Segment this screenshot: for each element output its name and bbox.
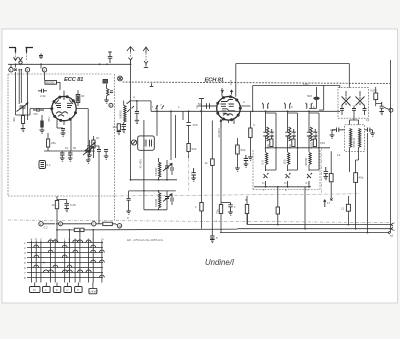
- tube ECH 81 envelope: [217, 97, 241, 121]
- switch contact arcs row6: [34, 265, 72, 267]
- IF bus row: [254, 187, 311, 229]
- antenna 1 arrow: [127, 47, 134, 52]
- trimmer bottom-left cluster: [83, 146, 94, 155]
- ground under node cap: [135, 120, 140, 123]
- wire row y151: [44, 126, 95, 151]
- resistor 75k below tube: [219, 205, 222, 214]
- wire H3 second top: [253, 86, 340, 112]
- svg-text:40k: 40k: [359, 176, 364, 180]
- switch contact arcs row5: [91, 260, 105, 262]
- dash-dot chassis line bottom: [8, 220, 390, 223]
- cap to ground at bus left: [210, 236, 214, 240]
- capacitor 400: [186, 123, 190, 126]
- wire H5 main B+ row: [151, 110, 340, 112]
- svg-text:U: U: [66, 288, 68, 292]
- resistor right of tube: [249, 128, 252, 138]
- switch contact arcs row4: [34, 255, 67, 257]
- verticals from H5: [171, 111, 183, 160]
- antenna lead bottom cap: [127, 198, 131, 200]
- resistor right of trimmer: [92, 140, 95, 148]
- resistor right col a: [329, 174, 333, 182]
- svg-text:4000: 4000: [314, 131, 318, 138]
- resistor below tube ECH: [211, 159, 215, 166]
- capacitor 2,2k: [38, 89, 47, 93]
- cap right top to ground: [380, 102, 384, 112]
- cap right of col3: [324, 167, 328, 177]
- tube ECC 81 envelope: [52, 96, 76, 120]
- antenna 1 Y contact: [129, 58, 133, 64]
- svg-text:40-80V: 40-80V: [217, 128, 221, 138]
- svg-text:2k: 2k: [96, 136, 100, 140]
- bottom bus a: [238, 228, 392, 230]
- svg-text:300: 300: [283, 159, 287, 164]
- junction dots on H1: [15, 63, 17, 65]
- capacitor on node: [135, 112, 139, 114]
- terminal 8 mid: [109, 103, 113, 107]
- connector leads: [35, 283, 93, 289]
- svg-text:ECH 81: ECH 81: [205, 78, 224, 84]
- resistor 1k vertical: [55, 201, 58, 209]
- antenna terminal bracket 1: [9, 48, 16, 53]
- capacitor below tube: [61, 129, 65, 131]
- small contact labels F: [155, 106, 164, 109]
- cathode resistor below tube: [57, 127, 63, 129]
- coil pack dotted enclosure: [253, 150, 320, 190]
- caps inside tank box: [144, 140, 152, 147]
- resistor 40k mid: [117, 124, 120, 131]
- IF column upper coils: [267, 127, 269, 141]
- dash-dot vertical links: [189, 148, 322, 194]
- svg-text:0,2: 0,2: [284, 181, 289, 185]
- junction dots on buses: [355, 228, 357, 230]
- matrix junction dots: [35, 252, 37, 254]
- connector box K: [53, 287, 61, 293]
- trimmer cluster mid-left: [85, 142, 96, 151]
- svg-text:ECC 81: ECC 81: [64, 77, 83, 83]
- tube ECH81 pin circles: [222, 97, 224, 99]
- switch matrix vertical columns: [31, 241, 102, 283]
- ground pair: [60, 158, 73, 161]
- screened lead terminal: [118, 76, 123, 81]
- tube ECH81 pin leads: [197, 64, 251, 128]
- svg-text:P: P: [77, 288, 79, 292]
- X core trimmer 2: [356, 97, 365, 106]
- svg-text:17: 17: [327, 201, 331, 205]
- capacitor right of coil: [110, 91, 113, 93]
- resistor 90 horizontal on bus: [74, 228, 84, 231]
- vertical x367: [367, 133, 369, 233]
- ground right of tube: [248, 157, 253, 160]
- capacitor 500: [313, 97, 319, 100]
- IF column 3: [308, 111, 310, 187]
- cap left of IFT: [337, 128, 339, 133]
- band filter trimmer upper: [163, 163, 172, 171]
- resistor 40k left: [21, 116, 24, 124]
- ground under trimmer: [86, 160, 91, 163]
- switch contact arcs row1: [48, 240, 91, 243]
- capacitor above H1: [108, 52, 113, 63]
- band filter cap upper: [171, 167, 173, 171]
- switch matrix horizontal rows: [27, 243, 103, 278]
- svg-text:45V: 45V: [47, 117, 51, 122]
- ground right of IFT: [370, 133, 375, 136]
- terminal 2: [42, 68, 46, 72]
- resistor below tube right: [245, 205, 248, 214]
- terminal 2 bottom: [39, 222, 43, 226]
- svg-text:13: 13: [366, 118, 370, 122]
- svg-text:470kHz: 470kHz: [352, 137, 356, 148]
- IFT leads down: [350, 115, 359, 172]
- antenna 2 Y contact: [144, 61, 148, 67]
- ground under cap: [228, 212, 233, 215]
- svg-text:100: 100: [229, 80, 233, 85]
- tube ECC81 pin leads: [30, 109, 88, 140]
- dash-dot mechanical line horizontal: [8, 195, 115, 197]
- svg-text:K: K: [56, 288, 58, 292]
- tube ECH81 internals: [221, 100, 236, 114]
- svg-text:11: 11: [341, 207, 344, 211]
- IF column 2: [287, 111, 289, 187]
- coil 50000 box: [45, 81, 57, 85]
- tube ECC81 internals: [55, 97, 73, 105]
- vertical lead right of 500: [319, 85, 324, 110]
- grid capacitor 50p: [207, 103, 210, 109]
- svg-text:4000: 4000: [292, 131, 296, 138]
- cap to ground mid right: [191, 168, 196, 178]
- svg-text:15000: 15000: [154, 167, 158, 176]
- band filter cap lower: [171, 198, 173, 202]
- tube top arrows: [221, 90, 233, 95]
- terminal L right: [389, 108, 393, 112]
- IF column right verticals: [266, 113, 320, 170]
- svg-text:UKW: UKW: [90, 290, 97, 294]
- switch contact arcs row2: [34, 245, 96, 247]
- switch contact arcs row3 extra: [48, 250, 78, 252]
- svg-text:47k: 47k: [33, 112, 38, 116]
- wire matrix feed verticals: [57, 230, 93, 243]
- resistor right col b: [354, 173, 358, 183]
- wire lower bus from node 9: [57, 224, 238, 230]
- connector box UKW: [89, 288, 97, 293]
- antenna 2 end bar: [144, 67, 148, 69]
- capacitor 1u below tube: [228, 203, 232, 213]
- wire band filter row: [131, 179, 178, 181]
- band filter coil upper: [159, 162, 161, 177]
- terminal x: [14, 69, 16, 71]
- svg-text:500: 500: [307, 94, 312, 98]
- bottom bus a2: [220, 232, 388, 234]
- svg-text:HF - 470 kc/s bis 1670 kc/s: HF - 470 kc/s bis 1670 kc/s: [127, 238, 164, 242]
- capacitor 47k mid-left: [33, 108, 44, 112]
- wire mid row y148: [265, 147, 330, 149]
- IF transformer dashed box: [345, 125, 365, 152]
- terminal 6: [25, 68, 29, 72]
- svg-text:10: 10: [118, 224, 122, 228]
- resistor bottom right: [346, 204, 350, 211]
- resistor 50k cathode: [236, 145, 240, 154]
- resistor dark small: [40, 121, 43, 128]
- svg-text:50k: 50k: [241, 148, 246, 152]
- svg-text:0,2: 0,2: [262, 181, 267, 185]
- svg-text:30: 30: [81, 94, 85, 98]
- node 9/3 junction: [56, 223, 58, 225]
- resistor 30 right of ECC81: [76, 95, 80, 103]
- oscillator tank box: [138, 136, 155, 150]
- cap right of IFT: [368, 128, 370, 133]
- IF column 1: [265, 111, 267, 187]
- terminal 1: [9, 68, 13, 72]
- connector box U: [64, 287, 72, 293]
- connector box P: [75, 287, 83, 293]
- shield dashed box left: left edge: [7, 74, 9, 196]
- svg-text:5k: 5k: [73, 146, 77, 150]
- antenna 2 arrow: [143, 47, 149, 53]
- resistor 74 horizontal: [103, 222, 113, 225]
- resistor 50k mid: [187, 144, 190, 152]
- right edge vertical: [389, 60, 391, 233]
- svg-text:a2: a2: [390, 234, 394, 238]
- ground left of IFT: [330, 135, 335, 138]
- wire AVC line down: [99, 151, 106, 224]
- ground under 0,25u: [64, 209, 69, 212]
- bus terminal arrows: [388, 223, 393, 234]
- shield dashed box left: top edge: [8, 73, 112, 75]
- IFT coil a: [350, 129, 352, 148]
- svg-text:50k: 50k: [192, 147, 197, 151]
- ground below tube: [61, 133, 66, 136]
- band filter coil lower: [159, 193, 161, 208]
- tube ECC81 pin circles: [59, 96, 61, 98]
- capacitor pair mid cluster: [97, 150, 108, 152]
- terminal 10: [117, 224, 121, 228]
- resistor col mid: [276, 207, 279, 214]
- svg-text:0,9: 0,9: [261, 160, 265, 165]
- capacitor pair on y151: [60, 151, 65, 158]
- svg-text:0,2: 0,2: [306, 181, 311, 185]
- svg-text:75k: 75k: [216, 209, 220, 214]
- junction node antenna: [136, 100, 138, 102]
- svg-text:10: 10: [65, 146, 69, 150]
- switch contact arcs row7: [43, 270, 91, 273]
- capacitor C-ant: [39, 54, 43, 60]
- wire H2 oscillator top: [236, 64, 349, 88]
- wire bottom terminal row: [43, 223, 103, 225]
- svg-text:2,2k: 2,2k: [40, 94, 46, 98]
- svg-text:1k: 1k: [52, 203, 56, 207]
- resistor 0,5M right top: [374, 93, 378, 100]
- terminal dot pair: [18, 69, 20, 71]
- coil antenna mid: [107, 89, 109, 96]
- resistor 47k below-left of tube: [47, 139, 50, 147]
- switch contact pair on antenna lead: [127, 100, 134, 112]
- lightning arrester circle: [19, 61, 22, 64]
- svg-text:150: 150: [320, 141, 325, 145]
- terminal 14: [330, 198, 333, 201]
- ground left cluster: [21, 129, 26, 132]
- terminal 17 arrow: [324, 200, 326, 207]
- svg-text:0,25: 0,25: [70, 203, 76, 207]
- grounds mid cluster: [87, 155, 92, 158]
- ground antenna lead: [126, 211, 131, 214]
- coil box 0,1: [39, 161, 46, 169]
- capacitor under coil: [122, 125, 127, 127]
- svg-text:30000: 30000: [304, 157, 308, 166]
- oscillator pack dashed box: [338, 88, 369, 119]
- coil 50000 vertical: [124, 105, 126, 122]
- spark gap contacts: [14, 57, 23, 61]
- capacitor 0,25u: [65, 203, 70, 205]
- connector box M: [30, 287, 41, 293]
- switch contact arcs row3: [91, 250, 105, 252]
- ground right top: [379, 112, 384, 115]
- band filter trimmer lower: [163, 194, 172, 202]
- X core trimmer 1: [342, 97, 351, 106]
- svg-text:50000: 50000: [119, 110, 123, 119]
- shield ground bar: [150, 86, 154, 88]
- svg-text:41-45V: 41-45V: [139, 159, 143, 169]
- terminal 7 bottom: [92, 222, 96, 226]
- connector box L: [43, 287, 51, 293]
- svg-text:Undine/I: Undine/I: [205, 258, 235, 267]
- svg-text:50000: 50000: [46, 81, 55, 85]
- svg-text:25k: 25k: [51, 141, 56, 145]
- svg-text:400: 400: [193, 123, 198, 127]
- svg-text:15000: 15000: [154, 198, 158, 207]
- bottom bus b: [248, 214, 392, 225]
- svg-text:0,1: 0,1: [47, 163, 52, 167]
- antenna 1 down lead: [130, 63, 132, 180]
- svg-text:40k: 40k: [12, 117, 16, 122]
- vertical feed x157: [151, 101, 157, 136]
- ground under coil: [104, 100, 109, 103]
- switch contact arcs row8: [100, 275, 105, 277]
- lamp box on shield edge: [103, 80, 108, 84]
- ground below resistor: [40, 130, 45, 133]
- IFT coil b: [359, 129, 361, 148]
- ground under cap 106: [104, 156, 109, 159]
- grounds mid coil: [117, 130, 127, 135]
- capacitor cathode bypass: [244, 155, 248, 164]
- shield dashed box left: right edge: [114, 74, 116, 220]
- svg-text:0,2: 0,2: [44, 226, 49, 230]
- trimmer left of tube: [17, 104, 28, 112]
- svg-text:12: 12: [337, 153, 341, 157]
- wire left cluster: [16, 93, 31, 129]
- svg-text:1k: 1k: [205, 161, 209, 165]
- wire H1 antenna bus: [8, 63, 131, 65]
- grid T bar: [199, 98, 204, 100]
- tuning cap circle: [131, 140, 136, 145]
- antenna terminal bracket 2: [26, 48, 34, 53]
- wire terminal leads down: [11, 64, 45, 115]
- svg-text:40k: 40k: [113, 125, 118, 129]
- shield dashed line H4: [123, 82, 391, 84]
- caps in osc box: [340, 109, 367, 111]
- svg-text:4000: 4000: [270, 131, 274, 138]
- wire band filter lower row: [129, 120, 176, 210]
